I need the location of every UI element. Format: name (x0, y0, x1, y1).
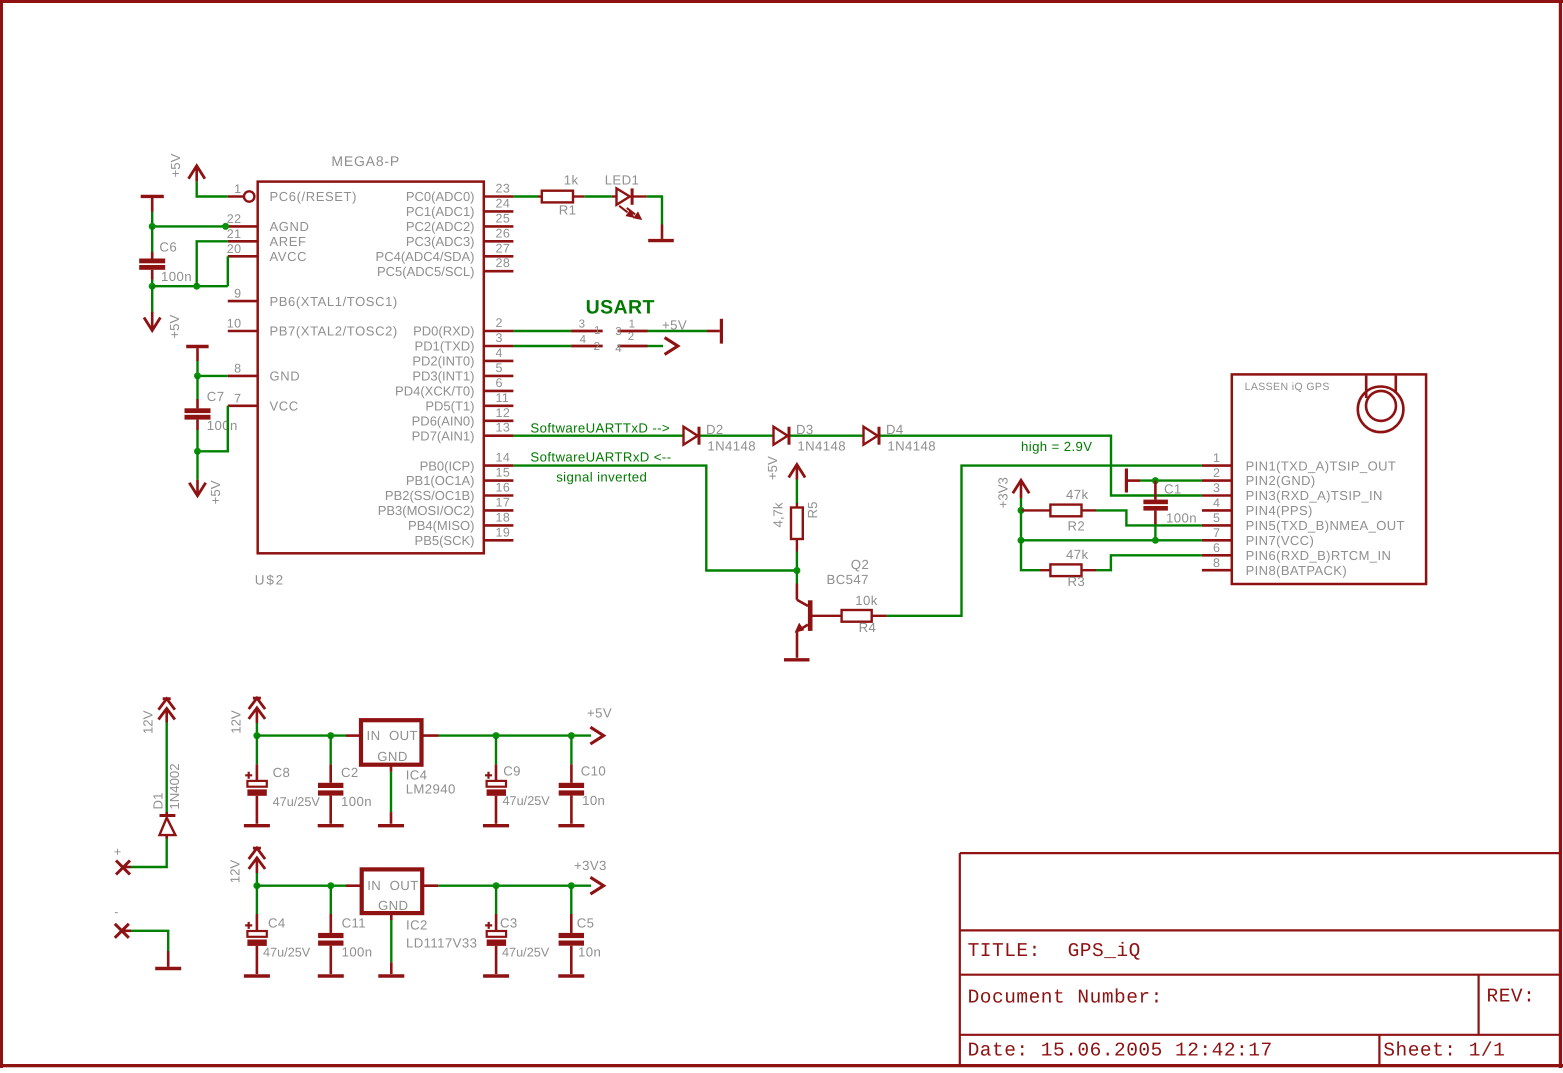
wire gnd to PIN2 (1140, 479, 1202, 481)
svg-text:Document Number:: Document Number: (968, 987, 1163, 1009)
svg-text:VCC: VCC (270, 399, 299, 414)
ground (C11) (318, 974, 344, 977)
label signal inverted (556, 469, 647, 484)
title block Document Number (968, 987, 1163, 1009)
terminal plus (X) (116, 861, 131, 875)
ground (C4) (244, 974, 270, 977)
pin 8 GND of U$2 (228, 361, 300, 383)
label SoftwareUARTTxD (530, 420, 670, 435)
svg-text:+: + (114, 845, 122, 859)
pin 6 PIN6(RXD_B)RTCM_IN of GPS (1202, 541, 1391, 563)
svg-text:GND: GND (377, 749, 408, 764)
svg-text:10k: 10k (855, 593, 877, 608)
resistor R4 (813, 610, 887, 622)
svg-text:R5: R5 (805, 502, 820, 519)
svg-text:5: 5 (1213, 511, 1220, 525)
label 1k (564, 173, 579, 188)
svg-text:26: 26 (496, 226, 511, 240)
label 10k (855, 593, 877, 608)
wire to +5V arrow (row2) (648, 345, 664, 347)
capacitor C9 (485, 736, 506, 824)
svg-text:100n: 100n (342, 945, 373, 960)
connector pin 3 (left, row1) (571, 319, 603, 338)
label 1N4148 (D3) (797, 439, 846, 454)
pin 11 PD5(T1) of U$2 (425, 391, 513, 414)
svg-text:PIN4(PPS): PIN4(PPS) (1246, 503, 1313, 518)
label C4 (268, 916, 286, 931)
wire pin23 to R1 (513, 195, 538, 197)
wire down to R3 (1021, 540, 1040, 570)
label C8 (273, 765, 291, 780)
svg-text:GND: GND (270, 369, 301, 384)
svg-text:C3: C3 (500, 916, 518, 931)
svg-text:LM2940: LM2940 (406, 782, 456, 797)
svg-text:PB7(XTAL2/TOSC2): PB7(XTAL2/TOSC2) (270, 324, 398, 339)
svg-text:PD5(T1): PD5(T1) (425, 399, 474, 414)
svg-text:+3V3: +3V3 (996, 477, 1011, 508)
pin 7 PIN7(VCC) of GPS (1202, 526, 1314, 548)
wire minus to ground (131, 931, 168, 967)
label R5 (805, 502, 820, 519)
svg-text:28: 28 (496, 256, 511, 270)
supply +5V arrow (R5) (789, 465, 805, 480)
svg-text:+5V: +5V (587, 706, 612, 721)
title block Sheet (1383, 1040, 1505, 1062)
label +3V3 (row B) (574, 858, 607, 873)
label C5 (577, 916, 595, 931)
svg-text:+5V: +5V (208, 480, 223, 504)
svg-text:PD7(AIN1): PD7(AIN1) (412, 428, 475, 443)
pin 28 PC5(ADC5/SCL) of U$2 (377, 256, 513, 279)
antenna symbol (1358, 376, 1404, 433)
svg-text:100n: 100n (1166, 511, 1197, 526)
wire 12V to D1 (165, 723, 167, 813)
svg-text:+5V: +5V (662, 318, 687, 333)
svg-text:2: 2 (496, 316, 503, 330)
label +5V (R5) (765, 456, 780, 480)
svg-text:LD1117V33: LD1117V33 (406, 936, 477, 951)
pin 1 PIN1(TXD_A)TSIP_OUT of GPS (1202, 451, 1396, 473)
svg-text:PC1(ADC1): PC1(ADC1) (406, 204, 475, 219)
label +5V (reset) (168, 153, 183, 177)
label 47u/25V (C8) (273, 795, 321, 809)
supply +5V bar (USART) (707, 319, 721, 344)
svg-text:C5: C5 (577, 916, 595, 931)
label Q2 (851, 557, 869, 572)
resistor R5 (791, 480, 803, 571)
junction (C10 top) (568, 732, 575, 739)
svg-text:PD0(RXD): PD0(RXD) (413, 324, 474, 339)
svg-text:PIN1(TXD_A)TSIP_OUT: PIN1(TXD_A)TSIP_OUT (1246, 458, 1397, 473)
label R3 (1068, 574, 1086, 589)
svg-text:C11: C11 (342, 916, 366, 931)
pin 7 VCC of U$2 (228, 391, 299, 413)
svg-text:+5V: +5V (765, 456, 780, 480)
wire R2 to PIN5 (1096, 510, 1202, 525)
supply +3V3 arrow right (row B) (590, 877, 603, 894)
capacitor C5 (559, 886, 584, 974)
svg-text:1N4148: 1N4148 (797, 439, 846, 454)
svg-text:C6: C6 (159, 240, 177, 255)
svg-text:Date: 15.06.2005 12:42:17: Date: 15.06.2005 12:42:17 (968, 1040, 1273, 1062)
svg-text:PD2(INT0): PD2(INT0) (412, 354, 474, 369)
label 100n (C11) (342, 945, 373, 960)
ground lead IC4 (390, 765, 393, 824)
label 10n (C10) (582, 793, 605, 808)
svg-text:LED1: LED1 (605, 173, 640, 188)
svg-text:PD1(TXD): PD1(TXD) (415, 339, 475, 354)
regulator IC2 (346, 869, 438, 913)
svg-text:TITLE:: TITLE: (968, 940, 1041, 962)
svg-text:100n: 100n (207, 418, 238, 433)
wire 12V down (row B) (256, 873, 258, 886)
diode D3 (774, 427, 790, 445)
label C9 (503, 764, 521, 779)
svg-text:14: 14 (496, 451, 511, 465)
svg-text:8: 8 (1213, 556, 1220, 570)
svg-text:PIN5(TXD_B)NMEA_OUT: PIN5(TXD_B)NMEA_OUT (1246, 518, 1405, 533)
svg-text:PIN6(RXD_B)RTCM_IN: PIN6(RXD_B)RTCM_IN (1246, 548, 1392, 563)
ground (C5) (558, 974, 584, 977)
svg-text:8: 8 (234, 361, 241, 375)
label 4.7k (771, 502, 786, 527)
label +5V (C7 arrow) (208, 480, 223, 504)
label 100n (C6) (161, 269, 192, 284)
capacitor C8 (244, 736, 266, 824)
svg-text:24: 24 (496, 196, 511, 210)
wire to +5V bar (648, 330, 708, 332)
supply +5V arrow (reset) (189, 166, 205, 182)
pin 2 PIN2(GND) of GPS (1202, 466, 1316, 488)
svg-text:Q2: Q2 (851, 557, 869, 572)
IC U$2 MEGA8-P body (258, 182, 484, 554)
label 100n (C1) (1166, 511, 1197, 526)
pin 2 PD0(RXD) of U$2 (413, 316, 513, 339)
svg-text:1k: 1k (564, 173, 579, 188)
wire AGND row (152, 225, 228, 227)
wire rail B left (257, 885, 346, 887)
ground bar (GPS PIN2) (1126, 469, 1140, 493)
svg-text:OUT: OUT (390, 878, 419, 893)
svg-text:PB2(SS/OC1B): PB2(SS/OC1B) (385, 488, 475, 503)
capacitor C4 (245, 886, 267, 974)
label +3V3 (arrow) (996, 477, 1011, 508)
svg-text:GPS_iQ: GPS_iQ (1068, 940, 1141, 962)
label LD1117V33 (406, 936, 477, 951)
pin 16 PB2(SS/OC1B) of U$2 (385, 481, 513, 504)
pin 15 PB1(OC1A) of U$2 (406, 466, 514, 489)
svg-text:19: 19 (496, 525, 511, 539)
label SoftwareUARTRxD (530, 450, 671, 465)
svg-text:16: 16 (496, 481, 511, 495)
junction (Q2 collector node) (793, 567, 800, 574)
junction (C7 top) (194, 372, 201, 379)
title block REV (1487, 986, 1536, 1008)
label R1 (559, 203, 577, 218)
svg-text:10n: 10n (578, 945, 601, 960)
svg-text:PD3(INT1): PD3(INT1) (412, 369, 474, 384)
svg-text:12V: 12V (229, 710, 244, 734)
svg-text:AGND: AGND (270, 219, 310, 234)
wire to AREF pin21 (197, 241, 228, 286)
label 10n (C5) (578, 945, 601, 960)
junction (C5 top) (568, 882, 575, 889)
svg-text:47k: 47k (1066, 487, 1088, 502)
label +5V (row A) (587, 706, 612, 721)
svg-text:GND: GND (378, 898, 409, 913)
wire R4 to GPS PIN1 (887, 466, 1202, 616)
svg-text:PB5(SCK): PB5(SCK) (415, 533, 475, 548)
label - (battery) (114, 905, 119, 919)
svg-text:12V: 12V (228, 860, 243, 884)
wire D1 to plus terminal (131, 839, 167, 868)
svg-text:PC0(ADC0): PC0(ADC0) (406, 189, 475, 204)
ground bar (above C6) (141, 196, 164, 212)
svg-text:47u/25V: 47u/25V (502, 946, 550, 960)
svg-text:4: 4 (580, 334, 587, 346)
svg-text:OUT: OUT (389, 728, 418, 743)
label C10 (581, 764, 606, 779)
label U$2 (255, 573, 285, 588)
svg-text:BC547: BC547 (827, 572, 869, 587)
capacitor C10 (559, 736, 584, 824)
label C11 (342, 916, 366, 931)
svg-text:U$2: U$2 (255, 573, 285, 588)
ground (IC2) (378, 974, 404, 977)
pin 27 PC4(ADC4/SDA) of U$2 (376, 241, 514, 264)
svg-text:25: 25 (496, 211, 511, 225)
wire LED1 to ground (647, 197, 662, 239)
junction (VCC row) (1018, 537, 1025, 544)
label IC2 (406, 918, 428, 933)
pin 19 PB5(SCK) of U$2 (415, 525, 514, 548)
wire R3 to PIN6 (1096, 555, 1202, 570)
supply +5V arrow down (C7) (189, 480, 205, 496)
wire rail A left (257, 734, 346, 736)
svg-text:R3: R3 (1068, 574, 1086, 589)
ground bar (above C7) (186, 347, 208, 362)
wire to AVCC pin20 (227, 256, 229, 286)
svg-text:Sheet: 1/1: Sheet: 1/1 (1383, 1040, 1505, 1062)
ground (Q2 emitter) (784, 658, 810, 661)
title block Date (968, 1040, 1273, 1062)
pin 10 PB7(XTAL2/TOSC2) of U$2 (227, 317, 398, 339)
label C2 (341, 765, 359, 780)
junction (C4 top) (253, 882, 260, 889)
svg-text:R1: R1 (559, 203, 577, 218)
pin 18 PB4(MISO) of U$2 (408, 510, 513, 533)
wire D2 to D3 (700, 435, 773, 437)
label C3 (500, 916, 518, 931)
LED LED1 (612, 188, 647, 218)
label D3 (796, 422, 814, 437)
supply 12V arrow (D1) (159, 699, 175, 723)
svg-text:PB6(XTAL1/TOSC1): PB6(XTAL1/TOSC1) (270, 294, 398, 309)
junction (C9 top) (493, 732, 500, 739)
svg-text:18: 18 (496, 510, 511, 524)
svg-text:100n: 100n (161, 269, 192, 284)
svg-text:1N4002: 1N4002 (167, 763, 182, 809)
label D1 (151, 793, 166, 810)
wire PD0 to connector (513, 330, 571, 332)
capacitor C3 (485, 886, 506, 974)
svg-text:USART: USART (586, 297, 655, 319)
svg-text:PIN8(BATPACK): PIN8(BATPACK) (1246, 563, 1348, 578)
svg-text:C8: C8 (273, 765, 291, 780)
pin 24 PC1(ADC1) of U$2 (406, 196, 514, 219)
wire D4 to GPS PIN3 (880, 436, 1202, 496)
junction (C6 bottom) (149, 283, 156, 290)
pin 25 PC2(ADC2) of U$2 (406, 211, 514, 234)
junction (AREF branch) (193, 283, 200, 290)
svg-text:R2: R2 (1068, 519, 1086, 534)
svg-text:23: 23 (496, 182, 511, 196)
pin 1 PC6(/RESET) of U$2 (228, 182, 357, 204)
label 12V (row A) (229, 710, 244, 734)
svg-text:47u/25V: 47u/25V (263, 946, 311, 960)
ground (LED1) (648, 239, 674, 242)
label + (battery) (114, 845, 122, 859)
junction (C11 top) (327, 882, 334, 889)
supply 12V arrow (row A) (249, 698, 265, 723)
svg-text:+3V3: +3V3 (574, 858, 607, 873)
svg-text:IN: IN (367, 728, 381, 743)
label 1N4148 (D2) (707, 439, 756, 454)
label D4 (886, 422, 904, 437)
label LED1 (605, 173, 640, 188)
pin 21 AREF of U$2 (227, 227, 307, 249)
label 47u/25V (C3) (502, 946, 550, 960)
label R2 (1068, 519, 1086, 534)
label 12V (row B) (228, 860, 243, 884)
svg-text:27: 27 (496, 241, 511, 255)
supply 12V arrow (row B) (249, 848, 265, 873)
svg-text:PC4(ADC4/SDA): PC4(ADC4/SDA) (376, 249, 475, 264)
wire 100n row (152, 285, 228, 287)
svg-text:100n: 100n (341, 794, 372, 809)
svg-text:IC2: IC2 (406, 918, 428, 933)
svg-text:47u/25V: 47u/25V (503, 794, 551, 808)
svg-text:1N4148: 1N4148 (887, 439, 936, 454)
junction (C2 top) (327, 732, 334, 739)
svg-text:47k: 47k (1066, 547, 1088, 562)
svg-text:10: 10 (227, 317, 242, 331)
label IC4 (406, 767, 428, 782)
svg-text:PC6(/RESET): PC6(/RESET) (270, 189, 358, 204)
svg-text:REV:: REV: (1487, 986, 1536, 1008)
svg-text:47u/25V: 47u/25V (273, 795, 321, 809)
label 1N4148 (D4) (887, 439, 936, 454)
label 47k (R2) (1066, 487, 1088, 502)
svg-text:1N4148: 1N4148 (707, 439, 756, 454)
label high = 2.9V (1021, 439, 1093, 454)
svg-text:PC3(ADC3): PC3(ADC3) (406, 234, 475, 249)
svg-text:C10: C10 (581, 764, 606, 779)
ground (C10) (558, 824, 584, 827)
svg-text:PB1(OC1A): PB1(OC1A) (406, 473, 475, 488)
svg-text:LASSEN iQ GPS: LASSEN iQ GPS (1245, 381, 1330, 393)
label 47u/25V (C9) (503, 794, 551, 808)
pin 12 PD6(AIN0) of U$2 (412, 406, 514, 429)
wire +3V3 to R2 node (1020, 498, 1022, 510)
svg-text:3: 3 (579, 319, 586, 331)
connector pin 1 (right, row1) (615, 318, 647, 338)
label C7 (207, 389, 225, 404)
label 47u/25V (C4) (263, 946, 311, 960)
label BC547 (827, 572, 869, 587)
GPS module LASSEN iQ body (1232, 374, 1426, 584)
ground lead IC2 (390, 913, 393, 974)
ground (IC4) (378, 824, 404, 827)
label LM2940 (406, 782, 456, 797)
ground (C2) (318, 824, 344, 827)
svg-text:17: 17 (496, 495, 511, 509)
regulator IC4 (346, 720, 439, 765)
svg-text:PC5(ADC5/SCL): PC5(ADC5/SCL) (377, 264, 475, 279)
svg-text:PB3(MOSI/OC2): PB3(MOSI/OC2) (378, 503, 475, 518)
ground (C9) (483, 824, 509, 827)
resistor R1 (538, 191, 584, 203)
svg-text:PB4(MISO): PB4(MISO) (408, 518, 474, 533)
svg-text:MEGA8-P: MEGA8-P (331, 153, 400, 169)
connector pin 4 (left, row2) (571, 334, 603, 353)
wire R1 to LED1 (584, 195, 612, 197)
label 100n (C2) (341, 794, 372, 809)
svg-text:AREF: AREF (270, 234, 307, 249)
svg-text:1: 1 (629, 318, 636, 330)
pin 4 PD2(INT0) of U$2 (412, 346, 513, 369)
svg-text:PD6(AIN0): PD6(AIN0) (412, 413, 475, 428)
pin 23 PC0(ADC0) of U$2 (406, 182, 514, 205)
resistor R2 (1021, 505, 1096, 517)
transistor Q2 (795, 571, 813, 658)
pin 13 PD7(AIN1) of U$2 (412, 421, 514, 444)
supply +5V arrow down (C6) (144, 312, 160, 331)
capacitor C6 (139, 226, 165, 286)
diode D4 (864, 427, 880, 445)
svg-text:high = 2.9V: high = 2.9V (1021, 439, 1093, 454)
svg-text:PIN3(RXD_A)TSIP_IN: PIN3(RXD_A)TSIP_IN (1246, 488, 1383, 503)
wire rail B right (438, 885, 591, 887)
terminal minus (X) (115, 924, 131, 938)
pin 14 PB0(ICP) of U$2 (420, 451, 514, 474)
pin 5 PD3(INT1) of U$2 (412, 361, 513, 384)
pin 26 PC3(ADC3) of U$2 (406, 226, 514, 249)
svg-text:4,7k: 4,7k (771, 502, 786, 527)
svg-text:7: 7 (234, 391, 241, 405)
svg-text:signal inverted: signal inverted (556, 469, 647, 484)
pin 4 PIN4(PPS) of GPS (1202, 496, 1313, 518)
ground (C3) (483, 974, 509, 977)
wire +3V3 node down (1020, 510, 1022, 540)
label 12V (D1) (140, 710, 155, 734)
svg-text:9: 9 (234, 287, 241, 301)
label D2 (706, 422, 724, 437)
wire gnd to AGND row (151, 212, 153, 227)
capacitor C1 (1143, 481, 1168, 541)
title block frame (960, 853, 1561, 1065)
svg-text:C7: C7 (207, 389, 225, 404)
svg-text:5: 5 (496, 361, 503, 375)
svg-text:+5V: +5V (167, 314, 182, 338)
svg-text:C9: C9 (503, 764, 521, 779)
svg-text:4: 4 (496, 346, 503, 360)
svg-text:2: 2 (1213, 466, 1220, 480)
label USART (586, 297, 655, 319)
svg-text:-: - (114, 905, 119, 919)
wire PD1 to connector (513, 345, 571, 347)
junction (C8 top) (253, 732, 260, 739)
